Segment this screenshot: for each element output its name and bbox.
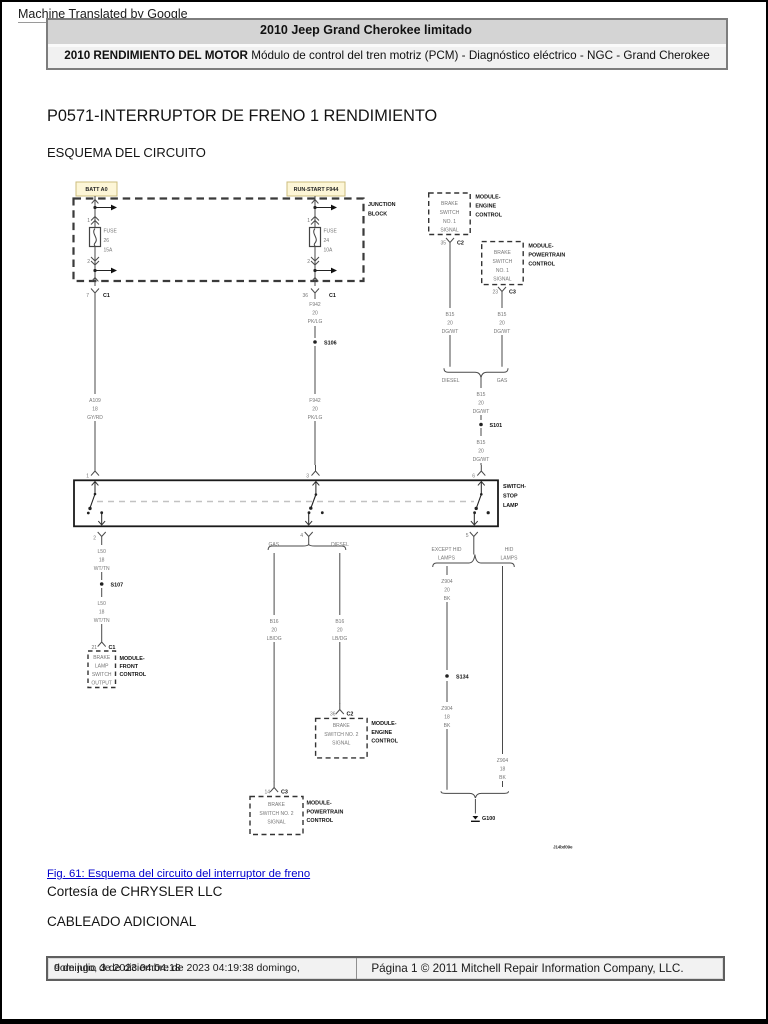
svg-text:SWITCH NO. 2: SWITCH NO. 2 (259, 811, 293, 817)
svg-text:SWITCH: SWITCH (440, 210, 460, 216)
svg-text:RUN-START F944: RUN-START F944 (294, 187, 339, 193)
wire Z904 except-hid upper (446, 566, 448, 575)
wire to pin 6 (480, 463, 482, 465)
svg-text:2: 2 (93, 536, 96, 542)
svg-text:23: 23 (492, 290, 498, 296)
svg-text:BK: BK (499, 775, 506, 781)
module U4 powertrain control (brake switch no.2) (250, 797, 303, 835)
svg-text:NO. 1: NO. 1 (496, 268, 509, 274)
svg-text:MODULE-: MODULE- (371, 721, 396, 727)
svg-text:24: 24 (324, 238, 330, 244)
wire B16 diesel lower (339, 642, 341, 704)
svg-text:J14bd09e: J14bd09e (553, 845, 573, 850)
svg-text:Z904: Z904 (441, 579, 453, 585)
svg-text:S101: S101 (490, 423, 503, 429)
courtesy line (47, 884, 222, 899)
svg-text:LB/DG: LB/DG (267, 636, 282, 642)
svg-text:S107: S107 (111, 583, 124, 589)
svg-text:1: 1 (87, 218, 90, 224)
wire S101 lower (480, 428, 482, 436)
svg-text:MODULE-: MODULE- (307, 801, 332, 807)
svg-text:FUSE: FUSE (324, 229, 338, 235)
svg-text:SWITCH NO. 2: SWITCH NO. 2 (324, 732, 358, 738)
svg-text:1: 1 (307, 218, 310, 224)
svg-text:CONTROL: CONTROL (371, 739, 398, 745)
svg-text:DIESEL: DIESEL (331, 542, 349, 548)
svg-text:20: 20 (444, 588, 450, 594)
svg-text:LB/DG: LB/DG (332, 636, 347, 642)
svg-text:Z904: Z904 (441, 706, 453, 712)
branch arrow (right bottom) (315, 270, 331, 272)
svg-text:18: 18 (444, 715, 450, 721)
section heading 2 (47, 914, 196, 929)
svg-text:3: 3 (306, 474, 309, 480)
bottom black bar (0, 1019, 768, 1024)
linkage dashed line (97, 501, 474, 503)
wire Z904 mid (446, 602, 448, 670)
svg-text:CONTROL: CONTROL (475, 213, 502, 219)
svg-text:20: 20 (312, 407, 318, 413)
wire F942 segment (314, 326, 316, 338)
wire BATT A0 to fuse 26 (94, 196, 96, 228)
svg-text:26: 26 (104, 238, 110, 244)
wire RUN-START to fuse 24 (314, 196, 316, 228)
svg-text:20: 20 (312, 311, 318, 317)
section heading (47, 145, 206, 160)
label BATT A0 (76, 182, 117, 196)
wire S101 upper (480, 378, 482, 389)
header table (46, 18, 728, 70)
svg-text:PK/LG: PK/LG (308, 415, 323, 421)
splice S101 (479, 423, 483, 427)
svg-text:2: 2 (87, 259, 90, 265)
brace join to ground (441, 791, 509, 798)
wire B15 from C2 (449, 249, 451, 309)
brace split hid/except-hid (433, 555, 515, 568)
branch arrow (right top) (315, 207, 331, 209)
switch contact 1 (pins 1-2) (92, 482, 99, 486)
svg-text:1: 1 (86, 474, 89, 480)
svg-text:B15: B15 (446, 312, 455, 318)
branch arrow (left bottom) (95, 270, 111, 272)
svg-text:A109: A109 (89, 398, 101, 404)
wire L50 mid 2 (101, 588, 103, 597)
switch 3 output arrow (473, 514, 475, 524)
svg-text:BATT A0: BATT A0 (85, 187, 107, 193)
svg-text:STOP: STOP (503, 494, 518, 500)
svg-text:BRAKE: BRAKE (441, 201, 459, 207)
google translate banner (18, 7, 188, 23)
svg-text:BRAKE: BRAKE (93, 655, 111, 661)
svg-text:CONTROL: CONTROL (528, 262, 555, 268)
splice S134 (445, 674, 449, 678)
svg-text:C2: C2 (457, 241, 464, 247)
svg-text:JUNCTION: JUNCTION (368, 202, 396, 208)
svg-text:BLOCK: BLOCK (368, 212, 387, 218)
svg-text:B16: B16 (335, 619, 344, 625)
wire L50 lower (101, 624, 103, 636)
svg-text:SWITCH-: SWITCH- (503, 484, 526, 490)
svg-text:WT/TN: WT/TN (94, 566, 110, 572)
wire S101 mid (480, 415, 482, 420)
wire F942 segment 3 (314, 421, 316, 465)
svg-text:F942: F942 (309, 398, 321, 404)
svg-text:SIGNAL: SIGNAL (493, 277, 512, 283)
fuse F24 10A (310, 228, 321, 247)
svg-text:BK: BK (444, 723, 451, 729)
svg-text:B15: B15 (498, 312, 507, 318)
svg-text:B16: B16 (270, 619, 279, 625)
svg-text:MODULE-: MODULE- (475, 195, 500, 201)
svg-text:DG/WT: DG/WT (473, 457, 490, 463)
svg-text:20: 20 (337, 628, 343, 634)
svg-text:15A: 15A (104, 248, 114, 254)
wire fuse 26 out (94, 247, 96, 287)
splice S107 (100, 582, 104, 586)
switch 2 output arrow (308, 514, 310, 524)
svg-text:6: 6 (472, 474, 475, 480)
module U2 powertrain control (brake switch no.1) (482, 242, 524, 285)
svg-text:MODULE-: MODULE- (120, 656, 145, 662)
svg-text:ENGINE: ENGINE (475, 204, 496, 210)
junction block (74, 199, 364, 282)
svg-text:F942: F942 (309, 302, 321, 308)
node fuse 26 out (93, 269, 96, 272)
svg-text:C1: C1 (109, 645, 116, 651)
svg-text:ENGINE: ENGINE (371, 730, 392, 736)
module U3 front control (brake lamp switch output) (88, 651, 116, 688)
svg-text:FUSE: FUSE (104, 229, 118, 235)
brace split gas/diesel (268, 545, 346, 551)
svg-text:36: 36 (330, 712, 336, 718)
svg-text:WT/TN: WT/TN (94, 618, 110, 624)
wire B15 powertrain lower (501, 335, 503, 367)
switch 3 throw dot (487, 511, 490, 514)
switch 1 output dot and arrow (100, 511, 103, 514)
svg-text:HID: HID (505, 547, 514, 553)
module U1 engine control (brake switch no.1) (429, 193, 471, 235)
svg-text:7: 7 (86, 293, 89, 299)
svg-text:POWERTRAIN: POWERTRAIN (307, 809, 344, 815)
wire pin 5 stem (473, 542, 475, 555)
switch-stop lamp box (74, 480, 498, 526)
svg-text:B15: B15 (477, 392, 486, 398)
svg-text:18: 18 (92, 407, 98, 413)
arrow at junction block edge (right) (312, 278, 319, 282)
svg-text:10A: 10A (324, 248, 334, 254)
svg-text:5: 5 (466, 533, 469, 539)
wire L50 mid (101, 572, 103, 580)
svg-text:21: 21 (91, 645, 97, 651)
wire to G100 (474, 799, 476, 814)
svg-text:C3: C3 (509, 290, 516, 296)
svg-text:18: 18 (500, 767, 506, 773)
svg-text:Z904: Z904 (497, 758, 509, 764)
svg-text:SIGNAL: SIGNAL (440, 228, 459, 234)
module U5 engine control (brake switch no.2) (316, 718, 368, 758)
svg-text:LAMP: LAMP (95, 664, 109, 670)
switch contact 3 (pins 6-5) (478, 482, 485, 486)
svg-text:BK: BK (444, 596, 451, 602)
svg-text:C2: C2 (347, 712, 354, 718)
svg-text:BRAKE: BRAKE (494, 250, 512, 256)
wire B15 from C3 (501, 298, 503, 309)
label RUN-START F944 (287, 182, 345, 196)
wire Z904 mid 2 (446, 681, 448, 702)
svg-text:BRAKE: BRAKE (268, 802, 286, 808)
arrow into junction block (left) (92, 200, 99, 204)
svg-text:36: 36 (302, 293, 308, 299)
footer table (46, 956, 725, 981)
svg-text:G100: G100 (482, 816, 495, 822)
svg-text:DG/WT: DG/WT (473, 409, 490, 415)
svg-text:PK/LG: PK/LG (308, 319, 323, 325)
svg-text:C1: C1 (329, 293, 336, 299)
svg-text:FRONT: FRONT (120, 664, 139, 670)
wire B15 engine lower (449, 335, 451, 367)
svg-text:20: 20 (271, 628, 277, 634)
svg-text:SIGNAL: SIGNAL (267, 820, 286, 826)
svg-text:GAS: GAS (497, 378, 508, 384)
switch contact 2 (pins 3-4) (313, 482, 320, 486)
wire B16 gas lower (273, 642, 275, 782)
branch arrow (left top) (95, 207, 111, 209)
svg-text:BRAKE: BRAKE (333, 723, 351, 729)
wire B16 gas upper (273, 553, 275, 615)
svg-text:EXCEPT HID: EXCEPT HID (432, 547, 462, 553)
brace join diesel/gas to S101 (444, 368, 508, 377)
svg-text:L50: L50 (98, 601, 107, 607)
svg-text:GY/RD: GY/RD (87, 415, 103, 421)
node fuse 26 feed (93, 206, 96, 209)
svg-text:SWITCH: SWITCH (493, 259, 513, 265)
svg-text:20: 20 (499, 321, 505, 327)
svg-text:OUTPUT: OUTPUT (91, 681, 112, 687)
svg-text:NO. 1: NO. 1 (443, 219, 456, 225)
svg-text:C1: C1 (103, 293, 110, 299)
wire Z904 hid lower (502, 781, 504, 787)
ground G100 (473, 816, 479, 820)
svg-text:LAMP: LAMP (503, 503, 519, 509)
svg-text:MODULE-: MODULE- (528, 244, 553, 250)
svg-text:18: 18 (99, 610, 105, 616)
arrow into junction block (right) (312, 200, 319, 204)
figure caption link (47, 868, 310, 880)
svg-text:DG/WT: DG/WT (494, 329, 511, 335)
svg-text:20: 20 (478, 449, 484, 455)
svg-text:DIESEL: DIESEL (442, 378, 460, 384)
svg-text:C3: C3 (281, 790, 288, 796)
wire L50 upper (101, 543, 103, 545)
svg-text:4: 4 (300, 533, 303, 539)
svg-text:2: 2 (307, 259, 310, 265)
svg-text:20: 20 (478, 401, 484, 407)
wire A109 18 GY/RD upper (94, 299, 96, 394)
svg-text:S134: S134 (456, 675, 469, 681)
switch 2 throw dot (321, 511, 324, 514)
svg-text:L50: L50 (98, 549, 107, 555)
svg-text:GAS: GAS (269, 542, 280, 548)
svg-text:20: 20 (447, 321, 453, 327)
svg-text:LAMPS: LAMPS (438, 556, 456, 562)
svg-text:CONTROL: CONTROL (307, 818, 334, 824)
svg-text:CONTROL: CONTROL (120, 672, 147, 678)
node fuse 24 out (313, 269, 316, 272)
splice S106 (313, 340, 317, 344)
svg-text:B15: B15 (477, 440, 486, 446)
wire Z904 hid upper (502, 566, 504, 754)
fuse F26 15A (90, 228, 101, 247)
title (47, 107, 437, 126)
wire B16 diesel upper (339, 553, 341, 615)
svg-text:14: 14 (264, 790, 270, 796)
svg-text:18: 18 (99, 558, 105, 564)
wire Z904 lower (446, 729, 448, 790)
svg-text:SIGNAL: SIGNAL (332, 741, 351, 747)
node fuse 24 feed (313, 206, 316, 209)
wire pin 4 stem (308, 542, 310, 545)
svg-text:35: 35 (440, 241, 446, 247)
arrow at junction block edge (left) (92, 278, 99, 282)
wire fuse 24 out (314, 247, 316, 287)
wire A109 18 GY/RD lower (94, 421, 96, 465)
svg-text:POWERTRAIN: POWERTRAIN (528, 253, 565, 259)
svg-text:SWITCH: SWITCH (92, 672, 112, 678)
wire F942 segment 2 (314, 346, 316, 394)
svg-text:S106: S106 (324, 341, 337, 347)
svg-text:DG/WT: DG/WT (442, 329, 459, 335)
svg-text:LAMPS: LAMPS (501, 556, 519, 562)
